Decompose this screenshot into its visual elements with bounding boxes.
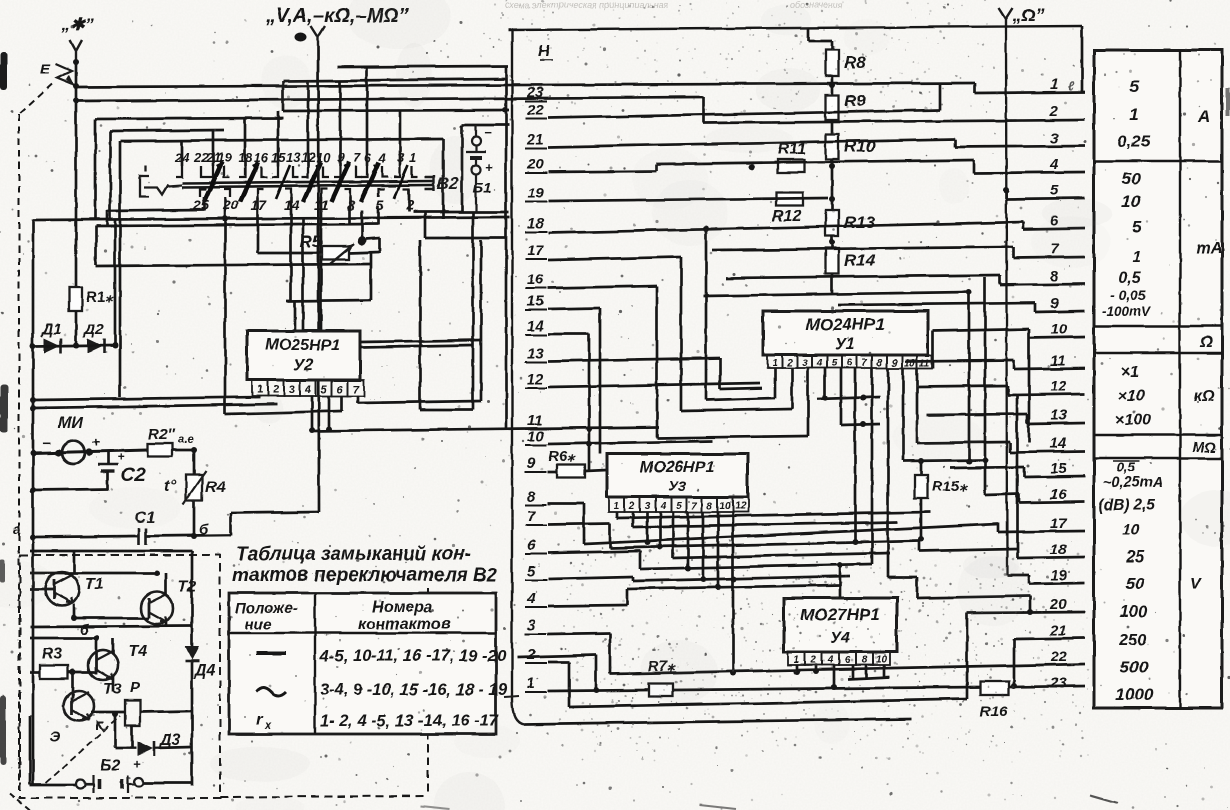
resistor R5 arrow	[330, 244, 354, 264]
svg-text:2: 2	[786, 358, 793, 369]
wire L1 middle	[673, 687, 980, 690]
wire T1 collector up	[73, 551, 76, 573]
wire right-2 stub	[703, 120, 1085, 123]
junction x589 L10	[586, 441, 592, 447]
wire y398 short	[817, 397, 880, 399]
switch contact 21 tick	[207, 166, 213, 177]
transistor T2	[141, 592, 173, 624]
wire T-block right rail x192 lower	[191, 661, 194, 786]
svg-text:×100: ×100	[1115, 412, 1151, 429]
svg-text:21: 21	[1049, 622, 1067, 639]
switch wiper 3	[303, 162, 321, 202]
wire L13 branch down	[719, 358, 722, 389]
svg-text:контактов: контактов	[358, 616, 451, 633]
wire right-15 line	[950, 467, 1024, 468]
svg-text:6: 6	[527, 537, 536, 554]
wire T2 collector stem	[165, 573, 168, 595]
svg-text:50: 50	[1122, 169, 1141, 188]
range table section line y326	[1094, 325, 1222, 327]
wire bottom rail left	[30, 784, 75, 787]
resistor R14	[826, 248, 839, 274]
wire R15 bottom stem	[920, 498, 923, 539]
svg-text:Положе-: Положе-	[235, 600, 297, 617]
switch contact 20 tick	[224, 189, 230, 197]
svg-text:2: 2	[272, 384, 279, 396]
wire L11	[312, 427, 659, 431]
svg-text:4: 4	[659, 501, 666, 512]
wire R8 stem top	[831, 41, 834, 50]
wire right-12 jog	[1007, 386, 1010, 395]
node A2	[73, 98, 79, 104]
wire L6 branch down	[639, 551, 642, 569]
svg-text:4: 4	[304, 384, 311, 396]
bus line 3 stub (right)	[955, 146, 1085, 147]
junction y398 x863	[860, 395, 866, 401]
wire L14	[548, 333, 589, 336]
wire x1030 down	[1029, 596, 1032, 613]
junction R10 bottom	[829, 163, 835, 169]
svg-text:1: 1	[772, 358, 778, 369]
wire ohm probe vertical	[1006, 28, 1007, 575]
wire meter line y452	[33, 450, 148, 453]
switch contact 12 tick	[302, 166, 308, 177]
wire У3 pin3 fan	[646, 512, 649, 542]
wire right-14 jog	[1009, 443, 1012, 452]
switch wiper 2	[240, 162, 258, 202]
wire R5 wiper right	[366, 238, 380, 239]
junction x855 y542	[852, 539, 858, 545]
svg-text:8: 8	[877, 358, 883, 369]
svg-text:5: 5	[1050, 182, 1059, 199]
wire stem contact 9 up	[339, 80, 342, 166]
node R5 wiper	[358, 237, 367, 246]
svg-text:16: 16	[527, 271, 544, 288]
wire R3 right	[68, 671, 96, 674]
wire vert x425	[424, 212, 427, 238]
wire L10	[548, 441, 713, 444]
wire R9-R10 stem	[831, 120, 834, 134]
junction frame x505	[502, 107, 508, 113]
wire right-13 line	[926, 414, 1027, 415]
wire frame y141	[120, 139, 443, 141]
switch contact 1 tick	[412, 166, 418, 177]
svg-text:17: 17	[251, 197, 268, 213]
wire stem contact 3 up	[399, 111, 402, 166]
svg-text:18: 18	[527, 215, 544, 232]
wire stem contact 25 down	[203, 197, 206, 211]
wire У1 pin7 stem	[871, 368, 874, 564]
bus line 1 label underline	[525, 691, 547, 693]
transistor T4	[88, 650, 118, 680]
wire У4 pin6 stem	[852, 665, 855, 678]
svg-text:Т2: Т2	[178, 579, 197, 596]
wire y425 short	[841, 424, 880, 425]
wire У2 pin2 left y405	[33, 404, 278, 408]
wire L13	[548, 358, 720, 361]
battery Б1	[466, 125, 486, 212]
svg-text:10: 10	[527, 428, 544, 445]
wire R15 bottom long line	[584, 524, 998, 544]
svg-text:У2: У2	[293, 357, 313, 374]
wire frame y118	[95, 118, 283, 119]
junction R13 bottom	[829, 239, 835, 245]
svg-text:R3: R3	[42, 646, 63, 663]
switch wiper 4	[331, 162, 349, 202]
wire node e down	[193, 450, 196, 475]
junction У2 pin4	[309, 427, 315, 433]
wire vert x506 mid-left edge	[505, 66, 508, 430]
wire Д3 line left	[115, 747, 136, 750]
switch contact 24 tick	[176, 166, 182, 177]
svg-text:- 0,05: - 0,05	[1110, 287, 1146, 303]
wire T2 base y618	[74, 617, 149, 620]
wire L17 branch down x681	[680, 257, 683, 411]
wire У1 pin2 stem	[791, 368, 794, 409]
svg-text:100: 100	[1119, 603, 1147, 621]
wire vert x473	[472, 212, 475, 410]
svg-text:Т1: Т1	[85, 576, 104, 593]
wire R15 top stem	[920, 461, 923, 475]
wire left rail x33	[32, 219, 35, 786]
svg-text:10: 10	[719, 501, 731, 512]
svg-text:R6⁎: R6⁎	[548, 448, 576, 465]
svg-text:а.е: а.е	[178, 434, 193, 446]
svg-text:5: 5	[832, 358, 838, 369]
svg-text:R2″: R2″	[148, 426, 175, 443]
wire y346 У2 right	[360, 345, 473, 347]
wire L8	[548, 503, 584, 506]
bus line 6 stub (right)	[1023, 228, 1085, 229]
junction y548 x660	[657, 544, 663, 550]
wire stem contact 11 down	[320, 197, 323, 331]
bus line 21 stub (right)	[1014, 638, 1085, 639]
svg-text:14: 14	[1050, 435, 1067, 452]
wire У3 pin1 fan	[616, 512, 619, 518]
wire y238 right	[425, 237, 506, 240]
svg-text:×10: ×10	[1117, 388, 1144, 405]
svg-text:~0,25mA: ~0,25mA	[1103, 475, 1163, 491]
resistor R8	[826, 50, 839, 76]
wire frame y66	[337, 66, 508, 67]
wire y512 to V-A vertical	[231, 512, 319, 513]
wire R4 bottom to б	[193, 500, 196, 536]
wire vert x115	[114, 219, 117, 345]
bus line 4 label underline	[525, 606, 547, 608]
svg-text:+: +	[485, 160, 493, 175]
wire stem contact 15 up	[277, 111, 280, 166]
junction y580 x734	[731, 576, 737, 582]
wire L3 branch down	[609, 633, 612, 674]
bus line 12 stub (right)	[1008, 394, 1085, 395]
wire C2 bottom stem	[107, 471, 110, 490]
wire right-6 jog	[1022, 222, 1025, 229]
wire y389	[720, 388, 762, 389]
scan stray marks bottom right	[420, 795, 1118, 809]
bus line 8 stub (right)	[1000, 284, 1085, 285]
wire right-16 line	[985, 494, 1019, 495]
bus line 22 label underline	[525, 118, 547, 120]
svg-text:10: 10	[1122, 192, 1141, 211]
svg-text:23: 23	[526, 84, 544, 101]
wire R5 wiper stem up	[361, 210, 364, 241]
wire vert x96	[95, 226, 98, 265]
wire right-7 jog	[1012, 247, 1015, 258]
wire У3 pin5 fan	[672, 512, 675, 558]
svg-text:МИ: МИ	[58, 415, 83, 432]
wire L5 branch down	[632, 577, 635, 581]
svg-text:7: 7	[353, 150, 361, 165]
wire У4 top feed	[839, 565, 842, 598]
svg-text:−: −	[42, 435, 50, 451]
bus line 11 label underline	[525, 428, 547, 430]
switch contact 22 tick	[201, 166, 207, 177]
capacitor C1	[138, 528, 141, 545]
svg-text:5: 5	[527, 563, 536, 580]
svg-text:4: 4	[526, 590, 536, 607]
wire У4 pin4 stem	[833, 665, 836, 687]
wire L7 branch down	[609, 523, 612, 548]
wire У2 pin5 stem	[328, 396, 331, 430]
wire L22	[548, 110, 940, 118]
wire T1 emitter down	[73, 604, 76, 618]
resistor R15	[915, 475, 928, 498]
switch contact 9 tick	[334, 166, 340, 177]
svg-text:Е: Е	[40, 61, 51, 78]
diode Д3	[137, 741, 153, 756]
wire right-9 line	[838, 303, 1035, 305]
wire right-19 jog	[1028, 575, 1031, 584]
wire right-18 jog	[1016, 549, 1019, 558]
svg-text:8: 8	[862, 655, 868, 666]
wire diode line y345	[33, 345, 115, 346]
wire right-1 jog	[973, 83, 976, 93]
svg-text:5: 5	[1132, 218, 1142, 237]
contact table box	[229, 593, 496, 734]
bus line 13 label underline	[525, 361, 547, 363]
switch B2 right end bracket	[425, 175, 434, 191]
wire R8 top feed horiz	[808, 40, 832, 43]
svg-text:Б2: Б2	[100, 757, 120, 774]
range table section line y353	[1094, 352, 1222, 354]
wire x73 down to T3	[72, 672, 75, 698]
wire y722 bottom long	[524, 719, 912, 724]
amplifier У1 box	[763, 311, 928, 355]
bus line 19 label underline	[525, 201, 547, 203]
wire contact14 stem long	[290, 197, 293, 301]
svg-text:1: 1	[794, 655, 800, 666]
wire У1 pin3 stem	[807, 368, 810, 436]
wire frame vert x95	[94, 119, 97, 219]
range table section line y458	[1094, 457, 1222, 459]
wire frame y131	[110, 130, 224, 131]
diode Д2	[87, 338, 103, 353]
wire T1 base	[30, 588, 54, 591]
wire B1 frame bottom y212	[413, 211, 509, 214]
wire x303 feed to У2 top	[302, 219, 305, 331]
svg-text:R14: R14	[844, 251, 876, 270]
svg-text:R4: R4	[205, 479, 226, 496]
svg-text:19: 19	[527, 185, 544, 202]
wire stem contact 8 down	[349, 197, 352, 224]
svg-text:25: 25	[1125, 548, 1145, 566]
junction meter left	[54, 449, 61, 456]
diode Д4	[185, 646, 199, 660]
wire vert x420	[419, 240, 422, 410]
svg-text:У1: У1	[835, 336, 855, 353]
wire B1 frame top y125	[462, 124, 509, 127]
relay Р coil	[125, 700, 140, 726]
wire mid left edge x512	[511, 30, 513, 700]
svg-text:ℓ: ℓ	[1068, 79, 1075, 93]
svg-text:12: 12	[1050, 378, 1067, 395]
wire dashed mechanical link	[46, 716, 120, 783]
junction node e	[191, 447, 197, 453]
wire right-8 line	[726, 275, 1000, 278]
wire frame vert x443	[442, 139, 445, 219]
wire R5 right	[349, 252, 380, 253]
wire b node up x231	[230, 513, 233, 535]
junction x33 y397	[30, 397, 36, 403]
svg-text:R12: R12	[772, 208, 801, 225]
bus line 13 stub (right)	[1027, 423, 1085, 424]
svg-text:50: 50	[1126, 575, 1145, 593]
svg-text:10: 10	[904, 358, 916, 369]
wire У1 pin11 stem up	[932, 331, 935, 368]
junction y674 x816	[813, 668, 819, 674]
junction y569 x840	[837, 562, 843, 568]
wire L22 up connector	[939, 84, 942, 110]
svg-text:11: 11	[527, 412, 543, 429]
wire R11 line	[657, 160, 974, 164]
svg-text:20: 20	[526, 156, 544, 173]
svg-text:4: 4	[816, 358, 823, 369]
wire y589 long	[627, 585, 840, 589]
wire У1 pin6 stem	[854, 368, 857, 542]
dashed case frame diagonal	[19, 84, 52, 114]
resistor R16	[980, 682, 1009, 695]
range 0,5 overline	[1113, 460, 1140, 462]
probe * fork	[70, 40, 82, 60]
resistor R10	[826, 134, 839, 159]
switch contact 7 tick	[356, 166, 362, 177]
junction y461 x921	[918, 458, 924, 464]
junction R15 bottom	[918, 536, 924, 542]
wire T3 emitter to rail	[29, 716, 32, 785]
transistor T3	[64, 691, 94, 721]
bus line 15 label underline	[525, 309, 547, 311]
junction L1 x834	[831, 684, 837, 690]
wire У1 pin10 stem	[916, 368, 919, 443]
svg-text:1: 1	[1050, 76, 1058, 93]
amplifier У1 pin row	[767, 355, 932, 368]
wire T4 base stem	[95, 638, 98, 656]
wire y580 long	[633, 576, 850, 581]
svg-text:1: 1	[614, 501, 620, 512]
range table box	[1094, 50, 1222, 708]
diode Д1	[44, 338, 60, 353]
wire У3 pin7 fan	[687, 512, 690, 568]
wire Д3 line right	[154, 747, 192, 748]
bus line 14 stub (right)	[1010, 451, 1085, 452]
svg-text:ние: ние	[245, 616, 272, 633]
wire T4 emitter down	[112, 676, 115, 692]
wire stem contact 21 up	[212, 131, 215, 166]
svg-text:Д2: Д2	[82, 321, 104, 338]
wire L16	[548, 286, 657, 288]
node probe*	[73, 59, 79, 65]
svg-text:1: 1	[409, 150, 416, 165]
wire y264 long	[96, 264, 371, 266]
wire stem contact 18 up	[244, 119, 247, 166]
wire stem contact 12 up	[307, 80, 310, 166]
svg-text:Т4: Т4	[128, 643, 147, 660]
svg-text:R16: R16	[980, 703, 1008, 720]
wire vert x481	[480, 240, 483, 401]
junction ohm line r5	[1003, 187, 1009, 193]
junction y638 x88	[93, 635, 99, 641]
bus line 5 stub (right)	[1006, 198, 1085, 199]
wire У4 pin2 stem	[815, 665, 818, 671]
svg-text:2: 2	[526, 646, 536, 663]
wire y411 to У1 pin2	[681, 409, 792, 411]
svg-text:19: 19	[1050, 567, 1067, 584]
junction y580 x703	[700, 576, 706, 582]
bus line 7 label underline	[525, 524, 547, 526]
wire vert x107	[106, 210, 109, 225]
wire y548 long	[610, 541, 919, 548]
switch contact 15 tick	[272, 166, 278, 177]
wire L15 branch down x600	[599, 308, 602, 454]
wire L5	[548, 577, 633, 579]
wire L21	[548, 139, 955, 147]
wire L21 jog	[954, 139, 957, 147]
svg-text:R13: R13	[844, 213, 876, 232]
svg-text:9: 9	[1050, 295, 1059, 312]
bus line 16 label underline	[525, 287, 547, 289]
switch contact 6 tick	[361, 166, 367, 177]
svg-text:0,5: 0,5	[1117, 460, 1136, 475]
wire y551	[919, 549, 1017, 551]
wire C2 top stem	[107, 452, 110, 464]
svg-text:22: 22	[526, 102, 544, 119]
wire T2 emitter down	[165, 622, 168, 627]
amplifier У4 pin row	[788, 652, 890, 665]
svg-text:А: А	[1197, 107, 1210, 126]
svg-text:9: 9	[527, 455, 536, 472]
svg-text:10: 10	[1122, 522, 1140, 539]
svg-text:+: +	[117, 450, 124, 464]
switch wiper thin 2	[394, 165, 408, 199]
svg-text:12: 12	[527, 371, 544, 388]
svg-text:Р: Р	[130, 679, 141, 696]
amplifier У3 pin row	[609, 497, 749, 512]
wire T4 collector up	[112, 638, 115, 654]
contact table row2 position symbol	[256, 688, 286, 696]
junction R8-R9	[829, 82, 835, 88]
resistor R7	[649, 684, 673, 697]
junction T2 collector	[154, 570, 160, 576]
wire R5 wiper down	[379, 238, 382, 253]
dashed case frame left edge	[18, 114, 20, 790]
switch contact 16 tick	[261, 166, 267, 177]
resistor R5	[322, 247, 349, 260]
svg-text:Т3: Т3	[103, 681, 122, 698]
resistor R2	[148, 444, 172, 457]
wire x115 down	[114, 714, 117, 748]
switch wiper thin 1	[276, 165, 290, 199]
bus line 11 stub (right)	[1014, 368, 1085, 369]
svg-text:10: 10	[1050, 321, 1067, 338]
